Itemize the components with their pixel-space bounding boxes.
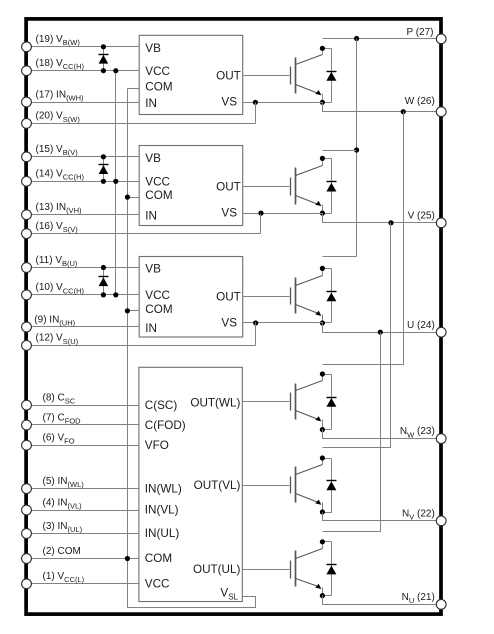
IGBT Q2 (VH) (291, 159, 323, 214)
node collector Q6 (UL) (320, 539, 325, 544)
freewheel diode D2f (323, 159, 337, 214)
gate driver block U1 HVIC(W) (139, 35, 243, 114)
node P rail junction (354, 36, 359, 41)
pin 8 C SC (22, 392, 139, 410)
svg-text:IN(VL): IN(VL) (145, 504, 179, 517)
pin 9 IN (UH) (22, 314, 140, 332)
svg-text:OUT(UL): OUT(UL) (193, 563, 241, 576)
svg-text:VB: VB (145, 152, 161, 165)
node VS row2 (258, 211, 263, 216)
svg-text:COM: COM (145, 303, 172, 316)
pin 16 V S(V) (22, 221, 261, 239)
pin 10 V CC(H) (22, 282, 140, 300)
svg-text:VCC: VCC (145, 289, 170, 302)
svg-text:VS: VS (221, 207, 237, 220)
svg-text:VCC: VCC (145, 578, 170, 591)
IGBT Q6 (UL) (291, 542, 323, 596)
svg-text:VB: VB (145, 263, 161, 276)
wire VS row1 (243, 102, 323, 104)
gate driver block U4 LVIC (139, 367, 242, 601)
pin 17 IN (WH) (22, 89, 140, 107)
wire W feed down (323, 112, 404, 365)
wire emitter out Q2 (VH) (323, 214, 442, 223)
pin NU (21) (402, 592, 447, 610)
freewheel diode D1f (323, 49, 337, 103)
node emitter Q3 (UH) (320, 320, 325, 325)
svg-text:VFO: VFO (145, 439, 169, 452)
pin 13 IN (VH) (22, 202, 140, 220)
pin 7 C FOD (22, 412, 139, 430)
wire VS riser row1 (255, 103, 257, 124)
svg-text:OUT(WL): OUT(WL) (190, 397, 240, 410)
node VS row3 (253, 320, 258, 325)
freewheel diode D6f (323, 542, 337, 596)
svg-text:VS: VS (221, 96, 237, 109)
node emitter Q5 (VL) (320, 509, 325, 514)
VCC(H) bus wire (113, 68, 118, 297)
wire emitter out Q6 (UL) (323, 596, 442, 605)
node emitter Q4 (WL) (320, 427, 325, 432)
svg-text:IN: IN (145, 97, 157, 110)
bootstrap diode D3 (99, 265, 109, 298)
node U branch (378, 330, 383, 335)
svg-text:C(FOD): C(FOD) (145, 419, 186, 432)
IGBT Q4 (WL) (291, 375, 323, 430)
pin 1 V CC(L) (22, 571, 139, 589)
node emitter Q2 (VH) (320, 211, 325, 216)
svg-text:(2) COM: (2) COM (43, 546, 81, 557)
wire gate lead Q1 (WH) (243, 75, 290, 77)
wire VS row2 (243, 213, 323, 215)
pin 19 V B(W) (22, 34, 140, 52)
pin 18 V CC(H) (22, 58, 140, 76)
IGBT Q3 (UH) (291, 269, 323, 323)
freewheel diode D4f (323, 375, 337, 430)
wire V collector rail (323, 150, 357, 152)
svg-text:W (26): W (26) (405, 96, 435, 107)
svg-text:V (25): V (25) (408, 211, 435, 222)
wire VS riser row3 (255, 323, 257, 346)
pin U (24) (407, 320, 446, 337)
pin NV (22) (402, 508, 446, 525)
gate driver block U2 HVIC(V) (139, 146, 243, 226)
wire gate lead Q3 (UH) (243, 296, 290, 298)
pin W (26) (405, 96, 446, 117)
svg-text:IN(UL): IN(UL) (145, 527, 180, 540)
svg-text:OUT: OUT (216, 70, 241, 83)
node emitter Q6 (UL) (320, 593, 325, 598)
wire gate lead Q2 (VH) (243, 186, 290, 188)
wire VS row3 (243, 322, 323, 324)
bootstrap diode D2 (99, 154, 109, 184)
node collector Q3 (UH) (320, 266, 325, 271)
bootstrap diode D1 (99, 44, 109, 73)
wire gate lead Q5 (VL) (243, 485, 290, 487)
pin 4 IN (VL) (22, 497, 139, 515)
svg-text:VB: VB (145, 42, 161, 55)
wire VS riser row2 (260, 214, 262, 234)
wire P bus down (356, 39, 358, 257)
node emitter Q1 (WH) (320, 100, 325, 105)
wire P rail row1 (323, 38, 442, 40)
svg-text:COM: COM (145, 552, 172, 565)
svg-text:OUT(VL): OUT(VL) (194, 479, 241, 492)
wire emitter out Q5 (VL) (323, 513, 442, 521)
svg-text:VCC: VCC (145, 176, 170, 189)
svg-text:U (24): U (24) (407, 320, 435, 331)
svg-text:IN: IN (145, 210, 157, 223)
node P bus V junction (354, 147, 359, 152)
wire emitter out Q3 (UH) (323, 323, 442, 333)
pin 3 IN (UL) (22, 521, 139, 539)
node collector Q4 (WL) (320, 371, 325, 376)
node V branch (388, 220, 393, 225)
svg-text:VCC: VCC (145, 65, 170, 78)
pin P (27) (406, 27, 446, 44)
node VS row1 (253, 100, 258, 105)
pin 14 V CC(H) (22, 169, 140, 187)
node collector Q5 (VL) (320, 455, 325, 460)
svg-text:OUT: OUT (216, 181, 241, 194)
node collector Q1 (WH) (320, 46, 325, 51)
svg-text:VS: VS (221, 316, 237, 329)
svg-text:COM: COM (145, 80, 172, 93)
package outline border (26, 19, 441, 614)
wire V feed down (323, 223, 391, 448)
gate driver block U3 HVIC(U) (139, 257, 243, 338)
pin NW (23) (400, 426, 446, 443)
pin 20 V S(W) (22, 111, 256, 129)
COM bus wire to VSL (125, 89, 256, 608)
pin 11 V B(U) (22, 255, 140, 273)
freewheel diode D3f (323, 269, 337, 323)
pin 15 V B(V) (22, 144, 140, 162)
wire gate lead Q4 (WL) (243, 401, 290, 403)
svg-text:IN: IN (145, 322, 157, 335)
freewheel diode D5f (323, 459, 337, 513)
svg-text:IN(WL): IN(WL) (145, 482, 182, 495)
pin 2 COM (22, 546, 139, 564)
IGBT Q5 (VL) (291, 459, 323, 513)
IGBT Q1 (WH) (291, 49, 323, 103)
wire emitter out Q1 (WH) (323, 103, 442, 112)
wire emitter out Q4 (WL) (323, 430, 442, 439)
pin V (25) (408, 211, 447, 228)
svg-text:OUT: OUT (216, 290, 241, 303)
pin 5 IN (WL) (22, 476, 139, 494)
pin 6 V FO (22, 433, 139, 451)
svg-text:C(SC): C(SC) (145, 399, 178, 412)
pin 12 V S(U) (22, 333, 256, 351)
svg-text:P (27): P (27) (406, 27, 433, 38)
wire U collector rail (323, 256, 357, 258)
wire gate lead Q6 (UL) (243, 569, 290, 571)
wire U feed down (323, 333, 381, 532)
node collector Q2 (VH) (320, 156, 325, 161)
svg-text:COM: COM (145, 189, 172, 202)
node W branch (401, 109, 406, 114)
